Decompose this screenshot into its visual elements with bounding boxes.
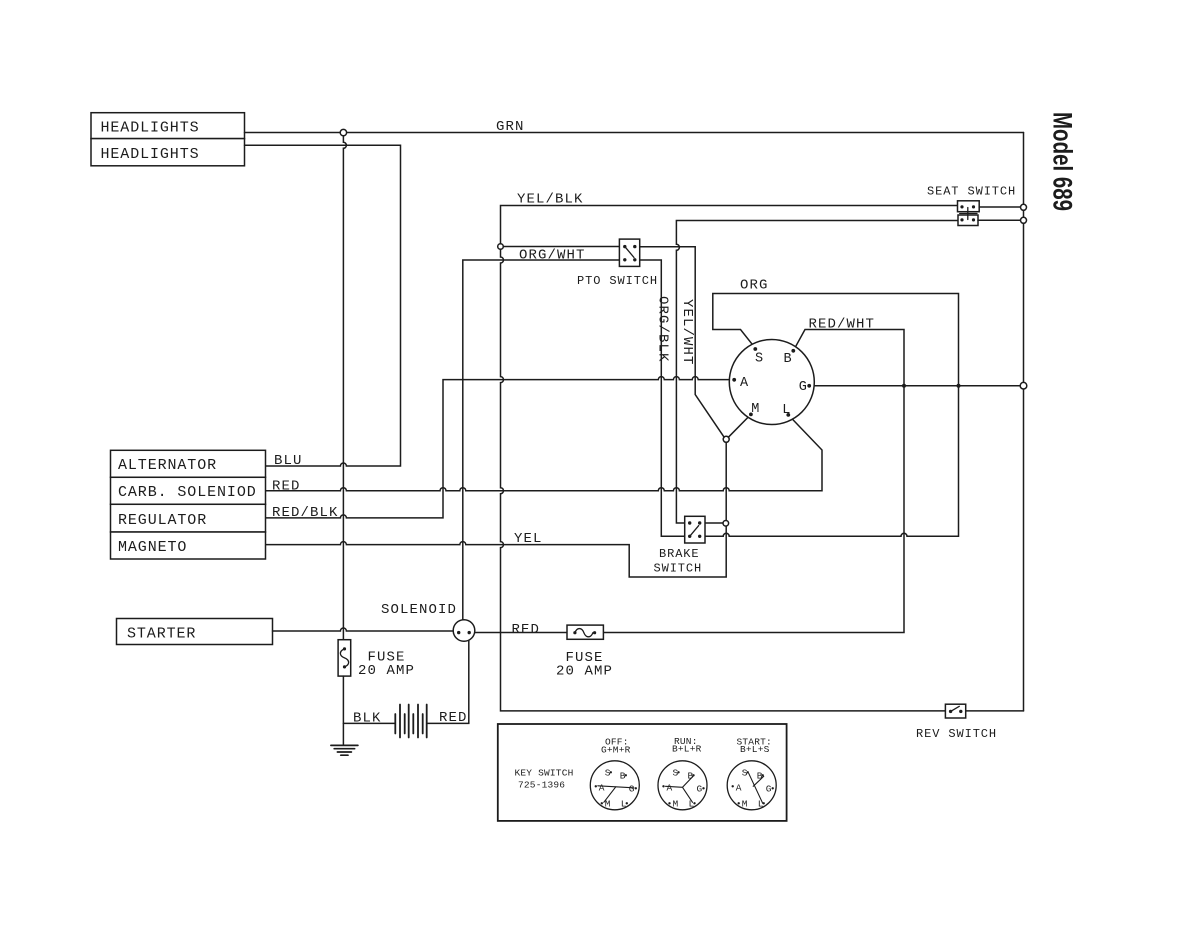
wire brake switch upper right to circle: [705, 522, 723, 524]
solenoid circle: [453, 620, 475, 642]
wire RED battery to solenoid: [427, 641, 469, 724]
svg-text:BLK: BLK: [353, 711, 382, 727]
svg-text:B+L+S: B+L+S: [740, 744, 770, 755]
wire A terminal feed and RED/BLK from regulator: [266, 377, 732, 518]
svg-text:MAGNETO: MAGNETO: [118, 539, 187, 556]
node seat lower terminal: [1021, 217, 1027, 223]
wire BLK battery: [343, 722, 395, 724]
wire G terminal to right bus: [809, 385, 1020, 387]
node GRN junction: [340, 129, 346, 135]
regulator box: [111, 504, 266, 532]
svg-text:CARB. SOLENIOD: CARB. SOLENIOD: [118, 484, 257, 501]
headlights box 1: [91, 113, 245, 139]
svg-text:A: A: [599, 782, 605, 793]
svg-text:B: B: [757, 770, 763, 781]
svg-text:GRN: GRN: [496, 119, 525, 135]
svg-text:M: M: [742, 798, 748, 809]
wire RED/WHT from B terminal over to fuse feed: [603, 330, 904, 633]
svg-text:SEAT SWITCH: SEAT SWITCH: [927, 185, 1016, 199]
wire ORG/WHT lower to PTO switch: [463, 260, 620, 620]
ground: [331, 745, 358, 755]
legend circle OFF: [590, 761, 639, 810]
svg-text:PTO SWITCH: PTO SWITCH: [577, 274, 658, 288]
alternator box: [111, 450, 266, 477]
svg-text:G: G: [799, 380, 807, 395]
svg-text:BRAKE: BRAKE: [659, 547, 700, 561]
svg-text:ORG: ORG: [740, 278, 769, 294]
magneto box: [111, 532, 266, 559]
key switch terminal dots: [732, 347, 811, 417]
legend RUN connections: [666, 776, 694, 803]
brake switch symbol: [685, 516, 705, 543]
svg-text:REGULATOR: REGULATOR: [118, 512, 207, 529]
legend circle START: [727, 761, 776, 810]
key switch U1 circle: [729, 340, 814, 425]
wire RED from carb solenoid to L terminal: [266, 415, 822, 491]
wire YEL from magneto to brake switch bottom: [266, 442, 726, 577]
rev switch symbol: [945, 704, 965, 718]
wire seat switch to right bus lower: [978, 219, 1021, 221]
svg-text:L: L: [689, 798, 695, 809]
wire PTO to YEL/WHT vertical and M junction: [640, 247, 725, 437]
wire fuse to battery BLK: [342, 676, 344, 745]
node seat upper terminal: [1021, 204, 1027, 210]
wire PTO to ORG/BLK vertical down to brake switch: [640, 260, 685, 536]
svg-text:A: A: [667, 782, 673, 793]
svg-text:HEADLIGHTS: HEADLIGHTS: [101, 120, 200, 137]
svg-text:M: M: [751, 402, 759, 417]
key switch legend box: [498, 724, 787, 821]
wire key-switch feed vertical (x=500.5) down to bottom run: [501, 249, 1024, 711]
fuse F1 20A vertical: [338, 640, 351, 676]
wire headlights2 / BLU from alternator: [245, 145, 401, 466]
headlights box 2: [91, 139, 245, 166]
wire right vertical bus: [1023, 133, 1025, 711]
svg-text:ORG/WHT: ORG/WHT: [519, 248, 586, 264]
wire brake switch right run: [705, 533, 959, 536]
node M junction circle: [723, 436, 729, 442]
svg-text:ORG/BLK: ORG/BLK: [655, 296, 671, 363]
carb soleniod box: [111, 477, 266, 504]
battery B1: [395, 705, 426, 738]
svg-text:20 AMP: 20 AMP: [358, 663, 415, 679]
svg-text:RED: RED: [439, 710, 468, 726]
svg-text:BLU: BLU: [274, 453, 303, 469]
svg-text:YEL/BLK: YEL/BLK: [517, 192, 584, 208]
svg-text:B+L+R: B+L+R: [672, 744, 702, 755]
svg-text:B: B: [784, 352, 792, 367]
legend START connections: [749, 773, 764, 803]
svg-text:S: S: [673, 767, 679, 778]
wire ORG/WHT upper to PTO switch: [503, 246, 619, 248]
svg-text:RED: RED: [512, 622, 541, 638]
svg-text:STARTER: STARTER: [127, 626, 196, 643]
node G junction dots: [902, 384, 961, 388]
wire seat switch to right bus upper: [979, 206, 1020, 208]
svg-text:G: G: [766, 783, 772, 794]
wire ORG from S terminal up and over to right bus: [713, 294, 959, 537]
svg-text:RED/BLK: RED/BLK: [272, 505, 339, 521]
wire GRN: headlights to right vertical: [245, 132, 1024, 134]
fuse F2 20A horizontal: [567, 625, 603, 639]
svg-text:M: M: [673, 798, 679, 809]
svg-text:L: L: [758, 798, 764, 809]
svg-text:SOLENOID: SOLENOID: [381, 602, 457, 618]
svg-text:S: S: [742, 767, 748, 778]
svg-text:YEL/WHT: YEL/WHT: [679, 299, 695, 366]
pto switch PTO: [619, 239, 639, 266]
seat switch symbol: [958, 201, 980, 212]
svg-text:G+M+R: G+M+R: [601, 745, 631, 756]
svg-text:REV SWITCH: REV SWITCH: [916, 727, 997, 741]
svg-text:L: L: [621, 798, 627, 809]
svg-text:S: S: [605, 767, 611, 778]
svg-text:S: S: [755, 352, 763, 367]
wire M terminal to junction: [728, 414, 751, 437]
legend OFF connections: [598, 786, 634, 803]
svg-text:B: B: [688, 770, 694, 781]
legend circle RUN: [658, 761, 707, 810]
node right bus G terminal circle: [1020, 382, 1027, 389]
svg-text:RED/WHT: RED/WHT: [809, 317, 876, 333]
wire solenoid to fuse 2: [475, 632, 567, 634]
wire seat switch lower feed: [676, 221, 958, 524]
svg-text:YEL: YEL: [514, 531, 543, 547]
wire YEL/BLK to seat switch: [501, 206, 958, 244]
svg-text:M: M: [605, 798, 611, 809]
svg-text:SWITCH: SWITCH: [654, 562, 703, 576]
starter box: [117, 619, 273, 645]
node ORG/WHT junction: [498, 244, 504, 250]
svg-text:G: G: [697, 783, 703, 794]
svg-text:G: G: [629, 783, 635, 794]
svg-text:L: L: [782, 403, 790, 418]
svg-text:RED: RED: [272, 479, 301, 495]
svg-text:Model 689: Model 689: [1048, 112, 1078, 211]
svg-text:A: A: [740, 376, 749, 391]
svg-text:A: A: [736, 782, 742, 793]
svg-text:KEY SWITCH: KEY SWITCH: [515, 768, 574, 779]
svg-text:B: B: [620, 770, 626, 781]
wire starter to solenoid: [273, 628, 454, 631]
svg-text:HEADLIGHTS: HEADLIGHTS: [101, 146, 200, 163]
svg-text:725-1396: 725-1396: [518, 780, 565, 791]
svg-text:20 AMP: 20 AMP: [556, 664, 613, 680]
svg-text:ALTERNATOR: ALTERNATOR: [118, 457, 217, 474]
node brake switch terminal circle: [723, 521, 729, 527]
legend terminal dots: [595, 771, 774, 804]
wire GRN vertical down to fuse: [343, 136, 346, 640]
